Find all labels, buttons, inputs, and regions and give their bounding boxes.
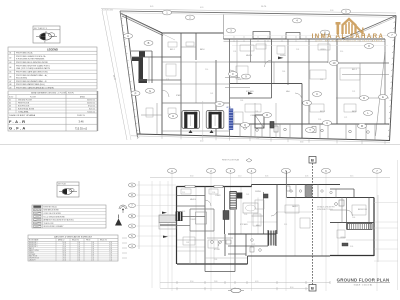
toilet partition 7: [319, 124, 321, 139]
grid vertical x377: [376, 174, 378, 292]
porch right v: [234, 264, 236, 272]
svg-text:LOBBY: LOBBY: [215, 195, 222, 197]
left dim verticals: [152, 181, 168, 288]
hatch legend row 5: [34, 219, 42, 221]
right dim tick y228: [374, 227, 398, 229]
svg-text:6.20: 6.20: [200, 7, 203, 9]
dim line between cores: [202, 101, 204, 140]
dark blob top strip: [305, 186, 312, 197]
left grid tick 9: [137, 184, 176, 186]
wall y63 far right: [336, 62, 389, 64]
grid bubble: [358, 124, 367, 129]
svg-text:WOOD WORK / JOINERY: WOOD WORK / JOINERY: [44, 226, 65, 228]
section line B-B: [312, 163, 314, 290]
svg-text:G.F.A: G.F.A: [9, 126, 27, 131]
light wall y240: [177, 239, 205, 241]
grid bubble: [163, 10, 172, 15]
left grid tick B: [137, 215, 176, 217]
left bubble 6: [128, 224, 135, 228]
light wall y74 right: [342, 74, 389, 76]
left bubble 9: [128, 183, 135, 187]
svg-text:KITCHEN: KITCHEN: [29, 254, 35, 256]
svg-text:1.40: 1.40: [109, 260, 112, 262]
light wall x274: [273, 62, 275, 84]
toilet partition 12: [374, 124, 376, 140]
top wall inner line: [224, 40, 386, 42]
blue lift bar: [229, 109, 233, 131]
svg-text:4.70: 4.70: [91, 260, 94, 262]
svg-text:1.45: 1.45: [210, 93, 213, 95]
svg-text:KITCHEN: KITCHEN: [246, 91, 254, 93]
section flag B bottom: [309, 285, 316, 292]
svg-text:R PORCHES IN THE PREMISES: R PORCHES IN THE PREMISES: [16, 59, 45, 61]
bottom ellipse symbol: [228, 288, 244, 292]
strip fixtures: [287, 186, 333, 194]
wall y124 corridor: [230, 123, 389, 125]
svg-text:04: 04: [9, 67, 11, 69]
svg-text:B: B: [131, 214, 133, 218]
svg-text:2.60: 2.60: [256, 138, 259, 140]
svg-text:P: P: [135, 91, 137, 95]
svg-text:LOBBY: LOBBY: [250, 115, 257, 117]
svg-text:BED 1: BED 1: [170, 49, 175, 51]
interior door arcs: [162, 60, 302, 100]
short wall y87: [225, 87, 250, 89]
svg-text:B: B: [148, 41, 150, 45]
arrow mark entry 2: [163, 236, 168, 238]
grid vertical x326: [325, 174, 327, 292]
svg-text:3.50: 3.50: [190, 176, 193, 178]
svg-text:2.60: 2.60: [77, 258, 80, 260]
light wall y98 right: [336, 97, 389, 99]
kitchen counter: [207, 237, 233, 239]
grid bubble: [342, 9, 351, 14]
wall x224: [224, 187, 226, 235]
top wall segment A: [162, 32, 224, 34]
top wall mid part: [252, 184, 287, 186]
fixture block 1: [255, 115, 264, 128]
svg-text:BEDROOM 2: BEDROOM 2: [29, 244, 38, 246]
grid bubble: [227, 28, 236, 33]
strip partition x296: [295, 185, 297, 198]
svg-text:3.30: 3.30: [350, 246, 353, 248]
toilet partition 3: [261, 124, 263, 137]
grid bubble: [379, 95, 388, 100]
svg-text:25.30: 25.30: [63, 260, 67, 262]
light wall y131: [162, 130, 230, 132]
light wall y115: [141, 114, 162, 116]
INMA AL SAHARA logo house icon: [336, 19, 364, 34]
toilet partition 6: [289, 124, 291, 138]
svg-text:2.25: 2.25: [352, 91, 355, 93]
grid bubble: [282, 168, 291, 173]
staircase hatch 1 (vertical): [230, 192, 237, 210]
hatch legend row 6: [34, 222, 42, 224]
svg-text:8.90: 8.90: [290, 287, 293, 289]
bottom plan interior hairlines: [176, 186, 374, 264]
svg-text:LIVING: LIVING: [340, 237, 346, 239]
svg-text:23.60: 23.60: [63, 258, 67, 260]
svg-text:2.80: 2.80: [214, 281, 217, 283]
svg-text:3.25: 3.25: [166, 79, 169, 81]
sofa top plan: [234, 112, 243, 124]
north pointer triangle: [115, 219, 122, 226]
wall y80: [138, 79, 181, 81]
svg-text:GROUND FLOOR PLAN: GROUND FLOOR PLAN: [337, 278, 390, 283]
plot boundary bottom: [137, 134, 390, 141]
light wall x190: [189, 231, 191, 264]
grid bubble: [303, 101, 312, 106]
plot corner diagonal: [342, 16, 396, 39]
wall x152: [151, 51, 153, 83]
left setback dim line: [102, 10, 127, 140]
top dim line bottom plan: [150, 177, 390, 179]
svg-text:STORE: STORE: [214, 249, 221, 251]
top wall step: [251, 185, 253, 187]
svg-text:2.10: 2.10: [238, 176, 241, 178]
svg-text:20.20: 20.20: [63, 254, 67, 256]
wall y83: [230, 83, 302, 85]
dark block kitchen: [264, 194, 269, 198]
bottom step v: [247, 256, 249, 264]
scattered dim annotations top plan: [166, 49, 355, 121]
wall x288: [287, 39, 289, 85]
courtyard top: [190, 208, 214, 210]
svg-text:1.20: 1.20: [109, 256, 112, 258]
step line at x=223: [223, 15, 225, 40]
staircase hatch 2: [269, 231, 275, 246]
hatch legend row 7: [34, 225, 42, 227]
svg-text:3.40: 3.40: [182, 211, 185, 213]
svg-text:16.70: 16.70: [261, 6, 267, 8]
svg-text:2.30: 2.30: [255, 111, 258, 113]
grid vertical x230.5: [230, 174, 232, 292]
svg-text:3.80: 3.80: [91, 254, 94, 256]
wall x250: [250, 39, 252, 62]
grid bubble: [365, 44, 374, 49]
dark block near stair: [223, 211, 229, 220]
inner slanted line right: [376, 52, 386, 136]
svg-text:LIVING: LIVING: [320, 49, 326, 51]
svg-text:1.80: 1.80: [240, 100, 243, 102]
svg-text:3.50: 3.50: [190, 281, 193, 283]
svg-text:1.30: 1.30: [290, 191, 293, 193]
svg-text:4.50: 4.50: [200, 141, 203, 143]
notes right of schedule: [122, 238, 127, 258]
wall y62 right band: [230, 61, 329, 63]
left grid tick 8: [137, 194, 176, 196]
grid vertical x251.5: [251, 174, 253, 292]
svg-text:AREA NOT INCLUDED IN G.F.A (VO: AREA NOT INCLUDED IN G.F.A (VOID): [44, 219, 75, 222]
svg-text:F.A.R: F.A.R: [9, 119, 27, 124]
svg-text:R: R: [266, 113, 268, 117]
svg-text:DINING: DINING: [29, 252, 34, 254]
grid bubble: [144, 41, 153, 46]
left grid line (bottom plan): [138, 181, 140, 249]
svg-text:SCALE : 1:100 @ A1: SCALE : 1:100 @ A1: [354, 283, 374, 286]
light wall x149: [148, 57, 150, 83]
scattered dim annotations bottom plan: [182, 191, 355, 261]
wall y225: [177, 225, 191, 227]
svg-text:16.80: 16.80: [63, 250, 67, 252]
wall box 1: [253, 32, 270, 39]
svg-text:0.50: 0.50: [109, 242, 112, 244]
left setback dim line 2: [106, 10, 131, 140]
grid bubble: [373, 168, 382, 173]
svg-text:0.70: 0.70: [109, 246, 112, 248]
left grid tick 5: [137, 235, 176, 237]
wall x346: [346, 198, 348, 230]
svg-text:STAIR: STAIR: [176, 94, 182, 97]
svg-text:OME (TOP COVER) ELEVATED PARTS: OME (TOP COVER) ELEVATED PARTS: [16, 67, 51, 70]
furniture bottom plan: [181, 189, 366, 248]
grid bubble: [388, 33, 397, 38]
plot corner diagonal inner: [344, 18, 395, 40]
arrow mark entry 1: [162, 212, 167, 214]
wall x196: [195, 33, 197, 60]
grid vertical x286: [285, 174, 287, 292]
svg-text:B: B: [311, 158, 314, 163]
toilet partition 9: [345, 124, 347, 139]
light wall y84: [162, 83, 230, 85]
svg-text:2.90: 2.90: [318, 119, 321, 121]
svg-text:1.10: 1.10: [109, 254, 112, 256]
svg-text:B: B: [311, 286, 314, 291]
svg-text:DINING: DINING: [280, 55, 287, 57]
plot boundary top: [120, 11, 396, 16]
hatch legend row 4: [34, 216, 42, 218]
grid bubble: [364, 111, 373, 116]
light wall y47: [181, 46, 196, 48]
grid bubble: [168, 168, 177, 173]
stair wall x268: [267, 230, 269, 246]
svg-text:06: 06: [9, 76, 11, 78]
stair wall x276: [275, 230, 277, 246]
bottom dim line 1: [160, 282, 330, 284]
left grid tick 7: [137, 205, 176, 207]
svg-text:4.40: 4.40: [91, 258, 94, 260]
light wall x360: [359, 63, 361, 98]
grid bubble: [169, 114, 178, 119]
svg-text:3.15: 3.15: [284, 224, 287, 226]
svg-text:E: E: [382, 95, 384, 99]
svg-text:18.50: 18.50: [63, 252, 67, 254]
lower room fixtures: [250, 239, 261, 252]
grid bubble: [242, 74, 251, 79]
svg-text:2.40: 2.40: [77, 256, 80, 258]
svg-text:Q: Q: [244, 123, 246, 127]
wall box 2: [286, 33, 300, 40]
wall y103: [162, 102, 230, 104]
courtyard left: [189, 209, 191, 231]
grid bubble: [241, 123, 250, 128]
svg-text:BEDROOM 1: BEDROOM 1: [29, 242, 38, 244]
svg-text:2.80: 2.80: [77, 260, 80, 262]
svg-text:2.20: 2.20: [77, 254, 80, 256]
svg-text:4.35: 4.35: [238, 79, 241, 81]
porch pad lower: [159, 223, 176, 230]
svg-text:G: G: [149, 89, 151, 93]
svg-text:CONT. EST RIYADH KINGDOM OF: CONT. EST RIYADH KINGDOM OF SAUDI ARABIA: [315, 39, 382, 42]
wall y57: [132, 56, 181, 58]
grid bubble: [146, 88, 155, 93]
legend table: [8, 47, 97, 89]
grid bubble: [207, 168, 216, 173]
light wall x265: [264, 40, 266, 64]
svg-text:H: H: [172, 114, 174, 118]
hatch legend row 1: [34, 206, 42, 208]
bottom wall right part: [330, 255, 374, 257]
light wall x255: [254, 103, 256, 137]
grid bubble: [321, 30, 330, 35]
svg-text:11.70: 11.70: [63, 244, 67, 246]
short grid stubs below bottom edge: [162, 135, 385, 145]
svg-text:BEDROOM: BEDROOM: [358, 209, 367, 211]
door arcs bottom plan: [205, 200, 353, 246]
wall x385: [384, 39, 386, 124]
wall x205: [204, 187, 206, 265]
wall x181: [180, 33, 182, 135]
wall x342 light: [341, 198, 343, 223]
grid bubble: [131, 91, 140, 96]
grid bubble: [313, 92, 322, 97]
bottom dimension line: [131, 136, 390, 143]
light wall y216b: [252, 215, 264, 217]
dark wall bar horizontal: [132, 57, 143, 61]
bottom plan group: [150, 48, 398, 293]
wall x229: [229, 39, 231, 136]
grid bubble: [124, 34, 133, 39]
bottom wall left part: [177, 263, 248, 265]
svg-text:2.60: 2.60: [91, 246, 94, 248]
svg-text:1.20: 1.20: [77, 244, 80, 246]
svg-text:9.30: 9.30: [330, 10, 333, 12]
entry door dark block: [176, 212, 183, 222]
hatch legend row 3: [34, 212, 42, 214]
svg-text:4.05: 4.05: [305, 176, 308, 178]
wall y246: [228, 245, 268, 247]
wall x277: [276, 185, 278, 235]
grid vertical x172: [171, 174, 173, 292]
svg-text:2.30: 2.30: [91, 244, 94, 246]
light sill line y35: [223, 35, 390, 37]
svg-text:2.15: 2.15: [182, 192, 185, 194]
svg-text:PLOT NO 2234: PLOT NO 2234: [102, 10, 113, 12]
svg-text:KITCHEN: KITCHEN: [240, 224, 248, 226]
grid bubble: [322, 168, 331, 173]
fixture block 2: [270, 122, 274, 129]
wall x235: [234, 210, 236, 264]
grid bubble: [263, 113, 272, 118]
grid bubble: [186, 15, 195, 20]
svg-text:1.40: 1.40: [77, 246, 80, 248]
arrow mark core 1: [189, 130, 193, 133]
bottom wall mid part: [248, 255, 331, 257]
front slanted wall: [121, 14, 162, 34]
svg-text:S: S: [306, 101, 308, 105]
right dim tick y240: [374, 239, 398, 241]
right dim tick y202.5: [374, 202, 398, 204]
short wall y77: [225, 77, 240, 79]
svg-text:COURT: COURT: [190, 219, 196, 221]
left bubble B: [128, 214, 135, 218]
top plan group: [101, 6, 397, 145]
dark wall bar lower: [139, 79, 147, 83]
svg-text:HALL: HALL: [286, 90, 290, 93]
grid bubble: [247, 168, 256, 173]
title GROUND FLOOR PLAN: [337, 278, 390, 287]
top dimension line: [101, 9, 396, 13]
svg-text:8.45: 8.45: [150, 6, 153, 8]
svg-text:10.00: 10.00: [63, 242, 67, 244]
light sill line y45: [232, 45, 388, 47]
wall y206: [177, 205, 206, 207]
ventilation fan symbol: [119, 205, 127, 213]
left outer wall: [176, 187, 178, 265]
toilet partition 1: [239, 124, 241, 137]
wall x162: [161, 33, 163, 135]
wall y222 right: [330, 222, 374, 224]
area statement table: [8, 91, 98, 131]
svg-text:LEGEND: LEGEND: [47, 47, 58, 51]
right dim tick y249: [374, 248, 398, 250]
arrow mark living: [248, 92, 253, 95]
right outer wall: [373, 198, 375, 257]
right dim tick y261: [374, 260, 398, 262]
wall x263: [263, 192, 265, 234]
north arrow key box (top sheet): [33, 26, 60, 43]
svg-text:2.35: 2.35: [296, 49, 299, 51]
left bubble 7: [128, 204, 135, 208]
daylight and ventilation schedule table: [28, 235, 118, 262]
dark wall bar vertical: [139, 57, 144, 83]
hatch legend table: [32, 205, 106, 228]
svg-text:53.92 %: 53.92 %: [77, 115, 85, 117]
grid bubble: [330, 61, 339, 66]
bath fixtures right wing: [330, 209, 347, 211]
wall x309: [308, 39, 310, 124]
strip partition x306: [305, 185, 307, 198]
sheet divider line: [0, 144, 400, 146]
bottom dim line 2: [160, 288, 310, 290]
wall x216: [215, 60, 217, 136]
toilet partition 11: [365, 124, 367, 140]
porch wall y225: [160, 224, 177, 226]
porch pad (light fill): [159, 215, 176, 223]
dining table: [243, 203, 258, 213]
bottom dim ticks: [177, 281, 330, 290]
svg-text:2.60: 2.60: [352, 217, 355, 219]
window 2: [214, 185, 223, 187]
svg-text:DRIVER ROOM: DRIVER ROOM: [29, 258, 40, 260]
svg-text:4.10: 4.10: [91, 256, 94, 258]
wall x246 low: [245, 234, 247, 256]
svg-text:2.80: 2.80: [282, 71, 285, 73]
svg-text:1.75: 1.75: [344, 117, 347, 119]
svg-text:1.95: 1.95: [233, 51, 236, 53]
light diagonal from corner: [121, 14, 175, 41]
toilet partition 5: [279, 124, 281, 138]
svg-text:3.20: 3.20: [91, 250, 94, 252]
svg-text:02: 02: [9, 57, 11, 59]
toilet partition 4: [269, 124, 271, 137]
svg-text:3.46: 3.46: [78, 120, 84, 124]
section flag B top: [309, 157, 316, 164]
svg-text:2.20: 2.20: [244, 214, 247, 216]
right dim vertical 2: [397, 160, 399, 290]
grid bubble: [293, 18, 302, 23]
light wall x237: [236, 40, 238, 84]
